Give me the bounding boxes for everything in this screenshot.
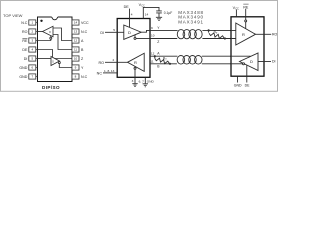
svg-text:Z: Z [157,40,159,44]
svg-text:TOP VIEW: TOP VIEW [3,13,23,18]
svg-text:RO: RO [22,30,28,34]
svg-text:N.C: N.C [81,75,88,79]
svg-text:6, 7: 6, 7 [139,79,144,83]
svg-text:R: R [134,60,137,65]
svg-text:N.C: N.C [81,30,88,34]
svg-text:RO: RO [272,33,278,37]
svg-text:DI: DI [24,57,28,61]
svg-text:10: 10 [151,34,155,38]
svg-text:RE: RE [243,5,249,9]
svg-text:14: 14 [74,21,78,25]
svg-text:DE: DE [245,83,251,87]
svg-text:13: 13 [74,30,78,34]
svg-text:GND: GND [147,79,155,83]
svg-text:VCC: VCC [81,21,89,25]
svg-text:12: 12 [74,39,78,43]
svg-text:N.C: N.C [21,21,28,25]
svg-text:DI: DI [100,31,104,35]
svg-text:10: 10 [74,57,78,61]
svg-text:GND: GND [19,75,27,79]
svg-text:R: R [49,30,51,34]
svg-text:11: 11 [74,48,77,52]
svg-text:GND: GND [19,66,27,70]
svg-text:D: D [128,30,131,35]
svg-text:DE: DE [22,48,28,52]
svg-text:5: 5 [113,28,115,32]
svg-text:DI: DI [272,60,276,64]
svg-text:GND: GND [234,83,242,87]
svg-text:14: 14 [145,13,149,17]
svg-text:D: D [52,59,54,63]
svg-text:11: 11 [150,60,153,64]
svg-text:4: 4 [131,13,133,17]
svg-text:CC: CC [235,7,239,11]
svg-text:D: D [250,59,253,64]
svg-text:RO: RO [98,61,104,65]
svg-text:NC: NC [97,71,103,75]
svg-text:RE: RE [22,39,28,43]
svg-text:1, 8, 13: 1, 8, 13 [104,69,115,73]
svg-text:R: R [242,32,245,37]
svg-text:MAX3491: MAX3491 [178,19,204,24]
svg-text:DE: DE [124,5,130,9]
svg-text:0.1µF: 0.1µF [164,11,173,15]
svg-text:9: 9 [151,26,153,30]
svg-text:12: 12 [151,52,155,56]
svg-text:3: 3 [132,79,134,83]
svg-text:DIP/SO: DIP/SO [42,85,60,90]
svg-text:2: 2 [113,58,115,62]
